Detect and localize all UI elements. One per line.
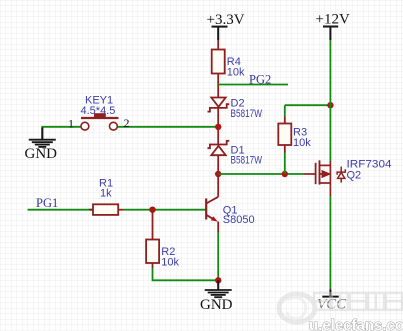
switch KEY1	[81, 113, 119, 130]
diode D1 B5817W	[208, 141, 230, 174]
diode D2 B5817W	[208, 98, 230, 112]
svg-text:10k: 10k	[293, 137, 311, 149]
transistor Q2 IRF7304 P-MOSFET	[304, 160, 345, 196]
wire R1 to junction	[123, 209, 153, 211]
svg-text:Q2: Q2	[347, 169, 362, 181]
junction node R1 / R2 / Q1 base	[149, 207, 155, 213]
wire junction to Q1 base	[153, 209, 207, 211]
resistor R4	[212, 40, 225, 98]
power +12V	[323, 27, 338, 41]
wire Q2 drain down	[329, 196, 331, 289]
ground GND left	[29, 128, 56, 147]
junction node D1 / Q1 collector / gate wire	[215, 171, 221, 177]
svg-text:10k: 10k	[161, 256, 179, 268]
wire R3 top	[284, 105, 286, 116]
svg-text:2: 2	[124, 116, 130, 130]
svg-text:4.5*4.5: 4.5*4.5	[81, 105, 116, 117]
wire gate row	[218, 173, 304, 175]
svg-text:10k: 10k	[227, 67, 245, 79]
svg-text:B5817W: B5817W	[231, 154, 263, 166]
transistor Q1 S8050	[206, 174, 218, 232]
wire from KEY1 pin2 to node	[117, 126, 218, 128]
junction node R3 bottom	[282, 171, 288, 177]
power port VCC (bottom bar)	[322, 289, 338, 296]
resistor R2	[146, 210, 159, 268]
svg-text:B5817W: B5817W	[231, 108, 263, 120]
svg-text:u.elecfans.com: u.elecfans.com	[309, 317, 403, 331]
wire Q1 emitter to ground row	[217, 232, 219, 280]
wire +12V rail	[329, 40, 331, 162]
power +3.3V	[212, 27, 228, 40]
junction node +12V / R3	[327, 102, 333, 108]
resistor R1	[89, 204, 123, 215]
wire R2 bottom to ground row	[153, 268, 219, 280]
wire KEY1 pin1 to ground	[42, 127, 81, 139]
junction node emitter / R2 / GND	[215, 277, 221, 283]
svg-text:+12V: +12V	[316, 12, 350, 28]
svg-text:+3.3V: +3.3V	[207, 12, 245, 28]
wire D2 to D1	[217, 108, 219, 144]
svg-text:GND: GND	[200, 297, 233, 313]
svg-text:GND: GND	[25, 146, 58, 162]
wire PG2 stub	[218, 84, 288, 86]
wire R3 bottom	[284, 153, 286, 175]
ground GND bottom	[205, 280, 232, 297]
svg-text:1k: 1k	[100, 188, 112, 200]
svg-text:1: 1	[68, 116, 74, 130]
junction node between D2 and D1	[215, 124, 221, 130]
wire PG1 to R1	[28, 209, 94, 211]
svg-text:S8050: S8050	[223, 214, 255, 226]
wire R3 top to +12V rail	[285, 104, 331, 106]
svg-text:PG1: PG1	[36, 196, 58, 210]
resistor R3	[278, 117, 291, 153]
